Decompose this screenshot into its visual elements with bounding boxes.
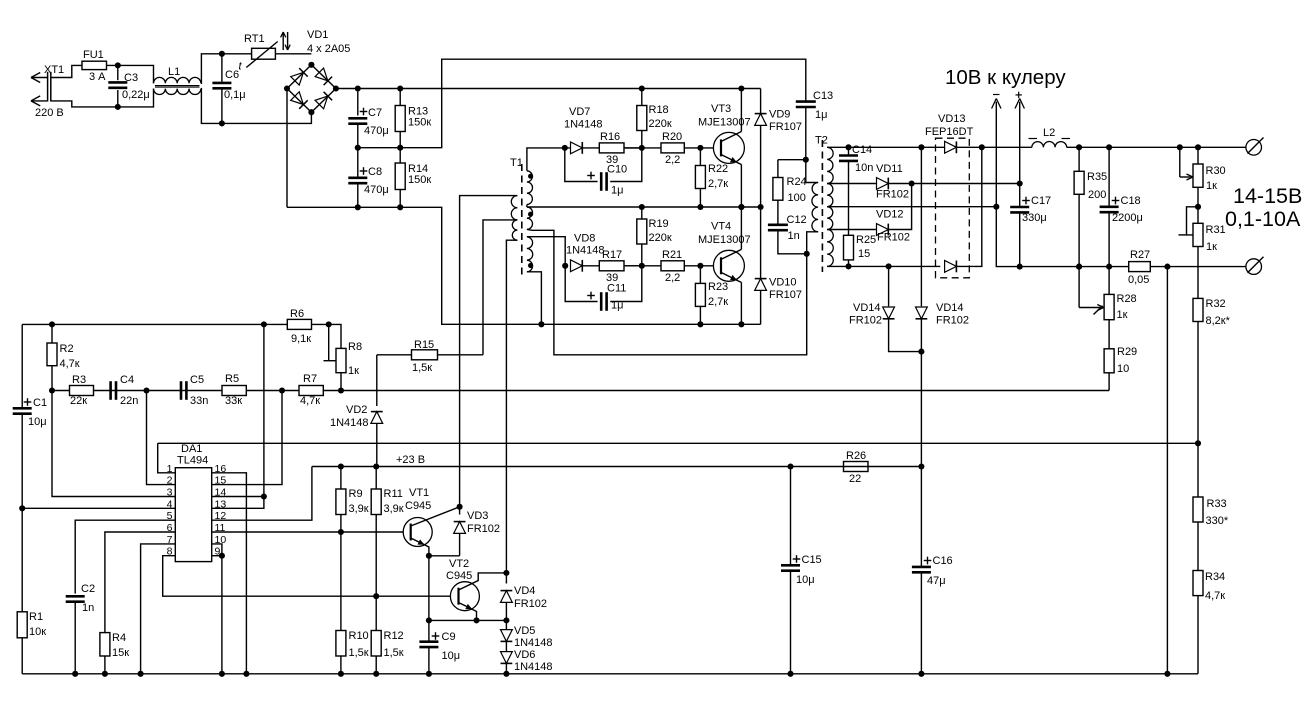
resistor R34 4.7k bbox=[1193, 571, 1225, 603]
svg-text:C7: C7 bbox=[368, 107, 382, 119]
diode VD5 1N4148 bbox=[501, 620, 553, 651]
svg-text:4,7к: 4,7к bbox=[1205, 590, 1225, 602]
capacitor C9 10u bbox=[419, 620, 460, 676]
resistor R29 10 bbox=[1104, 320, 1137, 391]
resistor R14 150k bbox=[395, 148, 431, 211]
wire C3 to L1 top bbox=[118, 65, 154, 83]
inductor L2 bbox=[1029, 127, 1071, 147]
resistor R17 39 bbox=[583, 249, 642, 284]
svg-text:10к: 10к bbox=[29, 626, 46, 638]
wire T1 bottom winding to common rail bbox=[527, 272, 545, 328]
svg-text:L1: L1 bbox=[168, 66, 180, 78]
svg-text:22: 22 bbox=[849, 473, 861, 485]
svg-text:9,1к: 9,1к bbox=[291, 333, 311, 345]
svg-text:R20: R20 bbox=[662, 131, 682, 143]
transformer T2 core bbox=[815, 135, 828, 273]
capacitor C3 0.22u bbox=[108, 62, 149, 110]
svg-text:VD11: VD11 bbox=[876, 163, 903, 175]
diode VD14 FR102 (left) bbox=[849, 263, 921, 351]
wire pin8 to VT2 base bbox=[163, 556, 459, 600]
wire pin5 to C2 bbox=[75, 520, 175, 593]
capacitor C6 0.1u bbox=[212, 51, 245, 127]
svg-text:1,5к: 1,5к bbox=[384, 647, 404, 659]
IC DA1 pin numbers bbox=[167, 463, 227, 558]
resistor R15 1.5k bbox=[377, 339, 483, 374]
label output rating bbox=[1225, 184, 1302, 231]
inductor L1 common-mode choke bbox=[154, 66, 201, 95]
resistor R9 3.9k bbox=[336, 467, 369, 533]
svg-text:C4: C4 bbox=[120, 374, 134, 386]
svg-text:VT3: VT3 bbox=[711, 103, 731, 115]
svg-text:150к: 150к bbox=[408, 174, 431, 186]
svg-text:2,7к: 2,7к bbox=[708, 296, 728, 308]
resistor R19 220k bbox=[637, 204, 672, 269]
svg-text:15к: 15к bbox=[112, 647, 129, 659]
wire pin16 to ground bbox=[212, 473, 250, 677]
capacitor C14 10n bbox=[839, 144, 873, 235]
wire emitter row bbox=[429, 619, 507, 621]
svg-text:VD8: VD8 bbox=[574, 233, 595, 245]
wire bridge minus drop bbox=[286, 89, 288, 208]
resistor R24 100 bbox=[773, 160, 807, 204]
svg-text:R3: R3 bbox=[72, 374, 86, 386]
capacitor C1 10u bbox=[13, 324, 47, 611]
resistor R7 4.7k bbox=[299, 373, 323, 407]
svg-text:R5: R5 bbox=[225, 373, 239, 385]
svg-text:T1: T1 bbox=[510, 157, 523, 169]
svg-text:C14: C14 bbox=[852, 144, 872, 156]
svg-text:8,2к*: 8,2к* bbox=[1206, 315, 1231, 327]
svg-text:C3: C3 bbox=[124, 72, 138, 84]
svg-text:14-15В: 14-15В bbox=[1233, 184, 1302, 208]
wire T1 primary bottom tap to VT2 node bbox=[506, 240, 517, 573]
label cooler output bbox=[945, 66, 1066, 89]
svg-text:R18: R18 bbox=[649, 104, 669, 116]
svg-text:22к: 22к bbox=[70, 395, 87, 407]
transformer T1 secondary top winding bbox=[527, 171, 533, 205]
svg-text:R30: R30 bbox=[1206, 165, 1226, 177]
svg-text:FR107: FR107 bbox=[769, 289, 802, 301]
capacitor C7 470u bbox=[348, 85, 388, 150]
diode VD7 1N4148 bbox=[564, 106, 603, 154]
wire pin1 to row A bbox=[158, 443, 176, 473]
diode VD12 FR102 bbox=[876, 184, 912, 244]
svg-text:R22: R22 bbox=[708, 163, 728, 175]
svg-text:3 А: 3 А bbox=[89, 71, 106, 83]
svg-text:VD2: VD2 bbox=[346, 404, 367, 416]
svg-text:33к: 33к bbox=[225, 395, 242, 407]
diode VD13 upper bbox=[945, 141, 957, 153]
diode VD10 FR107 bbox=[755, 207, 802, 324]
svg-text:22n: 22n bbox=[120, 395, 138, 407]
svg-text:1N4148: 1N4148 bbox=[330, 417, 369, 429]
svg-text:FR102: FR102 bbox=[467, 523, 500, 535]
svg-text:C12: C12 bbox=[787, 214, 807, 226]
svg-text:VD10: VD10 bbox=[769, 277, 797, 289]
capacitor C18 2200u bbox=[1100, 144, 1143, 269]
svg-text:47μ: 47μ bbox=[927, 575, 946, 587]
svg-text:R17: R17 bbox=[602, 249, 622, 261]
svg-text:C15: C15 bbox=[802, 554, 822, 566]
resistor R5 33k bbox=[222, 373, 246, 407]
svg-text:R21: R21 bbox=[662, 249, 682, 261]
svg-text:R33: R33 bbox=[1207, 498, 1227, 510]
svg-text:1,5к: 1,5к bbox=[412, 362, 432, 374]
svg-text:R25: R25 bbox=[856, 234, 876, 246]
svg-text:C11: C11 bbox=[607, 283, 626, 295]
resistor R2 4.7k bbox=[47, 324, 80, 390]
resistor R32 8.2k bbox=[1193, 298, 1231, 327]
svg-text:3,9к: 3,9к bbox=[384, 503, 404, 515]
svg-text:VD7: VD7 bbox=[569, 106, 590, 118]
svg-text:FU1: FU1 bbox=[83, 49, 104, 61]
svg-text:FR102: FR102 bbox=[514, 598, 547, 610]
resistor R27 0.05 shunt bbox=[1128, 249, 1170, 286]
wire cooler plus line bbox=[1015, 92, 1024, 187]
svg-text:L2: L2 bbox=[1043, 127, 1055, 139]
capacitor C16 47u bbox=[912, 467, 953, 677]
wire pin6 to R4 bbox=[105, 532, 175, 633]
svg-text:VD12: VD12 bbox=[876, 209, 904, 221]
svg-text:R29: R29 bbox=[1117, 346, 1137, 358]
svg-text:10n: 10n bbox=[855, 162, 873, 174]
wire mains top lead bbox=[51, 65, 82, 77]
svg-text:470μ: 470μ bbox=[364, 125, 389, 137]
svg-text:1N4148: 1N4148 bbox=[514, 661, 553, 673]
capacitor C17 330u bbox=[1010, 184, 1051, 270]
wire driver mid rail bbox=[527, 206, 761, 208]
svg-text:R35: R35 bbox=[1087, 171, 1107, 183]
wire pin10 to ground bbox=[212, 544, 225, 677]
capacitor C2 1n bbox=[66, 583, 95, 677]
potentiometer R30 1k bbox=[1177, 144, 1226, 192]
svg-text:200: 200 bbox=[1088, 189, 1106, 201]
svg-text:220 В: 220 В bbox=[35, 107, 64, 119]
svg-text:220к: 220к bbox=[649, 232, 672, 244]
resistor R33 330 bbox=[1193, 497, 1229, 527]
svg-text:10μ: 10μ bbox=[796, 574, 815, 586]
svg-text:C10: C10 bbox=[607, 164, 627, 176]
wire T2 tap VD11 row bbox=[827, 183, 876, 185]
diode VD13 lower bbox=[945, 261, 957, 273]
svg-text:FEP16DT: FEP16DT bbox=[925, 126, 974, 138]
resistor R21 2.2 bbox=[624, 249, 721, 284]
capacitor C15 10u bbox=[781, 463, 822, 676]
capacitor C11 1u bbox=[565, 266, 642, 312]
wire pin3 to R2R3 node bbox=[52, 391, 175, 497]
svg-text:R19: R19 bbox=[649, 218, 669, 230]
wire R30 chain column bbox=[1195, 144, 1201, 674]
svg-text:R11: R11 bbox=[384, 488, 403, 500]
svg-text:1N4148: 1N4148 bbox=[566, 245, 605, 257]
svg-text:330μ: 330μ bbox=[1022, 212, 1047, 224]
wire T1 top winding to VD7 bbox=[527, 148, 570, 171]
capacitor C5 33n bbox=[181, 374, 208, 407]
capacitor C12 1n bbox=[768, 200, 810, 257]
svg-text:2,7к: 2,7к bbox=[708, 178, 728, 190]
svg-text:RT1: RT1 bbox=[244, 33, 265, 45]
potentiometer R28 1k bbox=[1076, 264, 1137, 321]
svg-text:R28: R28 bbox=[1117, 293, 1137, 305]
svg-text:FR107: FR107 bbox=[769, 121, 802, 133]
svg-text:2200μ: 2200μ bbox=[1112, 212, 1143, 224]
transistor VT1 C945 bbox=[403, 487, 459, 556]
wire T2 bottom row bbox=[827, 265, 940, 267]
svg-text:R34: R34 bbox=[1205, 571, 1225, 583]
svg-text:VD4: VD4 bbox=[514, 585, 535, 597]
trimmer R8 1k bbox=[324, 324, 363, 377]
svg-text:0,1μ: 0,1μ bbox=[224, 89, 246, 101]
wire T2 tap VD12 row bbox=[827, 229, 876, 231]
svg-text:R1: R1 bbox=[29, 611, 43, 623]
svg-text:C945: C945 bbox=[405, 500, 431, 512]
wire feedback row R7 to R29 bbox=[49, 387, 1109, 393]
wire cooler minus line bbox=[992, 95, 1246, 267]
svg-text:330*: 330* bbox=[1206, 515, 1229, 527]
transistor VT3 MJE13007 bbox=[698, 85, 751, 210]
svg-text:100: 100 bbox=[788, 192, 806, 204]
potentiometer R31 1k bbox=[1179, 207, 1226, 253]
svg-text:T2: T2 bbox=[815, 135, 828, 147]
wire C8 bottom to driver common rail bbox=[287, 207, 761, 324]
svg-text:R6: R6 bbox=[290, 308, 304, 320]
resistor R35 200 bbox=[1074, 144, 1107, 269]
svg-text:10: 10 bbox=[1117, 363, 1129, 375]
transformer T1 feedback winding bbox=[527, 207, 533, 229]
wire T2 center tap row bbox=[827, 206, 996, 208]
wire pin11 to VT1 base bbox=[212, 529, 411, 535]
svg-text:VD9: VD9 bbox=[769, 109, 790, 121]
svg-text:1N4148: 1N4148 bbox=[514, 637, 553, 649]
resistor R10 1.5k bbox=[336, 532, 369, 677]
wire VT1 emitter to C9 row bbox=[426, 556, 432, 624]
svg-text:R7: R7 bbox=[303, 373, 317, 385]
svg-text:2,2: 2,2 bbox=[665, 154, 680, 166]
svg-text:MJE13007: MJE13007 bbox=[698, 234, 751, 246]
wire C7C8 midpoint to C13 bbox=[358, 59, 806, 148]
svg-text:VT1: VT1 bbox=[409, 487, 429, 499]
bridge diode top-left bbox=[291, 68, 308, 85]
svg-text:C6: C6 bbox=[225, 69, 239, 81]
svg-text:0,05: 0,05 bbox=[1128, 274, 1149, 286]
diode VD11 FR102 bbox=[876, 163, 915, 201]
svg-text:1к: 1к bbox=[348, 365, 359, 377]
svg-text:TL494: TL494 bbox=[177, 455, 208, 467]
svg-text:150к: 150к bbox=[408, 117, 431, 129]
svg-text:C5: C5 bbox=[190, 374, 204, 386]
svg-text:R24: R24 bbox=[787, 176, 807, 188]
svg-text:R12: R12 bbox=[384, 630, 404, 642]
svg-text:R26: R26 bbox=[846, 450, 866, 462]
svg-text:R23: R23 bbox=[708, 281, 728, 293]
svg-text:4 x 2A05: 4 x 2A05 bbox=[307, 43, 350, 55]
resistor R6 9.1k bbox=[287, 308, 311, 345]
resistor R11 3.9k bbox=[371, 467, 404, 597]
transformer T1 core bbox=[510, 157, 523, 278]
bridge diode bottom-left bbox=[291, 92, 308, 109]
svg-text:1N4148: 1N4148 bbox=[564, 119, 603, 131]
wire T1 primary center tap bbox=[483, 220, 517, 355]
svg-text:4,7к: 4,7к bbox=[300, 395, 320, 407]
wire L1 bottom to C6 bbox=[201, 89, 222, 124]
svg-text:FR102: FR102 bbox=[876, 189, 909, 201]
dual diode VD13 FEP16DT bbox=[925, 113, 974, 278]
wire pin13 pin14 to R6 bbox=[212, 324, 267, 508]
transformer T2 secondary winding bbox=[827, 147, 833, 266]
svg-text:10μ: 10μ bbox=[442, 650, 461, 662]
svg-text:VD14: VD14 bbox=[853, 302, 881, 314]
wire T1 top winding bottom to mid rail bbox=[526, 205, 528, 208]
diode VD4 FR102 bbox=[501, 573, 548, 624]
op-amp U DA1 TL494 body bbox=[175, 443, 211, 562]
svg-text:1к: 1к bbox=[1206, 241, 1217, 253]
terminal output minus bbox=[1246, 257, 1264, 275]
svg-text:R9: R9 bbox=[349, 488, 363, 500]
svg-text:4,7к: 4,7к bbox=[60, 358, 80, 370]
wire VT1 emitter node bbox=[426, 553, 460, 559]
wire pin9 stub bbox=[212, 553, 225, 559]
svg-text:1μ: 1μ bbox=[611, 185, 623, 197]
svg-text:1к: 1к bbox=[1206, 180, 1217, 192]
svg-text:220к: 220к bbox=[649, 118, 672, 130]
svg-text:VD5: VD5 bbox=[514, 625, 535, 637]
svg-text:C2: C2 bbox=[81, 583, 95, 595]
capacitor C10 1u bbox=[562, 145, 642, 197]
svg-text:DA1: DA1 bbox=[181, 443, 202, 455]
wire pin4 to C1R1 node bbox=[22, 507, 175, 509]
transformer T1 primary winding (left) bbox=[511, 196, 517, 241]
wire ground rail bbox=[22, 673, 1198, 675]
wire mains bottom lead bbox=[51, 101, 118, 107]
wire T1 primary top tap to VD3 node bbox=[460, 196, 518, 507]
svg-text:R15: R15 bbox=[414, 339, 434, 351]
wire C13 to T2 primary bbox=[806, 160, 818, 183]
svg-text:1,5к: 1,5к bbox=[349, 647, 369, 659]
wire C3 to L1 bottom bbox=[118, 89, 154, 107]
svg-text:1μ: 1μ bbox=[611, 300, 623, 312]
wire voltage sense row A bbox=[158, 442, 1198, 444]
resistor R16 39 bbox=[583, 131, 642, 166]
wire T2 output top row bbox=[827, 146, 1246, 148]
svg-text:R8: R8 bbox=[348, 341, 362, 353]
svg-text:VT2: VT2 bbox=[449, 558, 469, 570]
wire T1 feedback winding to T2 primary return bbox=[527, 229, 807, 354]
svg-text:FR102: FR102 bbox=[849, 315, 882, 327]
resistor R26 22 bbox=[844, 450, 869, 485]
svg-text:XT1: XT1 bbox=[44, 64, 64, 76]
resistor R3 22k bbox=[70, 374, 94, 407]
wire VD13 cathodes junction bbox=[957, 144, 985, 266]
svg-text:VD3: VD3 bbox=[467, 510, 488, 522]
svg-text:VD1: VD1 bbox=[307, 29, 328, 41]
resistor R18 220k bbox=[637, 85, 672, 151]
wire plus23V rail bbox=[312, 454, 922, 470]
resistor R20 2.2 bbox=[624, 131, 721, 166]
svg-text:15: 15 bbox=[858, 248, 870, 260]
svg-text:10μ: 10μ bbox=[28, 416, 47, 428]
capacitor C8 470u bbox=[348, 148, 388, 211]
wire VD11 VD12 cathodes to cooler plus bbox=[912, 183, 1020, 185]
wire AC bottom to bridge bbox=[222, 112, 312, 123]
diode bridge VD1 4x2A05 bbox=[284, 29, 350, 115]
svg-text:VT4: VT4 bbox=[711, 221, 731, 233]
diode VD6 1N4148 bbox=[501, 649, 553, 677]
svg-text:0,1-10А: 0,1-10А bbox=[1225, 207, 1301, 231]
svg-text:1к: 1к bbox=[1117, 309, 1128, 321]
wire pin15 to R5R7 node bbox=[212, 391, 282, 485]
wire main HV plus rail bbox=[336, 88, 761, 90]
svg-text:1μ: 1μ bbox=[815, 109, 827, 121]
transformer T1 secondary bottom winding bbox=[527, 237, 533, 272]
svg-text:0,22μ: 0,22μ bbox=[122, 89, 150, 101]
diode VD9 FR107 bbox=[755, 89, 802, 211]
transistor VT2 C945 bbox=[446, 558, 509, 623]
svg-text:R31: R31 bbox=[1206, 224, 1226, 236]
svg-text:FR102: FR102 bbox=[877, 232, 910, 244]
connector XT1 mains plug bbox=[31, 64, 64, 119]
svg-text:C8: C8 bbox=[368, 166, 382, 178]
fuse FU1 3A bbox=[82, 49, 118, 83]
svg-text:3,9к: 3,9к bbox=[349, 503, 369, 515]
svg-text:R4: R4 bbox=[112, 632, 126, 644]
svg-text:C1: C1 bbox=[33, 397, 47, 409]
svg-text:R16: R16 bbox=[600, 131, 620, 143]
svg-text:VD6: VD6 bbox=[514, 649, 535, 661]
svg-text:C16: C16 bbox=[933, 555, 953, 567]
svg-text:33n: 33n bbox=[190, 395, 208, 407]
svg-text:C18: C18 bbox=[1121, 195, 1141, 207]
svg-text:VD14: VD14 bbox=[936, 302, 964, 314]
transformer T2 primary winding bbox=[812, 183, 818, 232]
bridge diode top-right bbox=[315, 68, 332, 85]
resistor R22 2.7k bbox=[695, 148, 728, 210]
transistor VT4 MJE13007 bbox=[698, 204, 751, 327]
capacitor C13 1u bbox=[796, 90, 833, 163]
svg-text:MJE13007: MJE13007 bbox=[698, 117, 751, 129]
svg-text:C13: C13 bbox=[813, 90, 833, 102]
bridge diode bottom-right bbox=[315, 92, 332, 109]
wire T1 bottom winding to VD8 bbox=[527, 237, 565, 266]
resistor R13 150k bbox=[395, 85, 431, 150]
wire current sense line bbox=[1164, 267, 1170, 677]
svg-text:R32: R32 bbox=[1206, 298, 1226, 310]
thermistor RT1 bbox=[222, 32, 312, 73]
svg-text:+23 В: +23 В bbox=[396, 454, 425, 466]
terminal output plus bbox=[1246, 138, 1264, 156]
svg-text:R2: R2 bbox=[60, 343, 74, 355]
diode VD8 1N4148 bbox=[562, 233, 604, 272]
capacitor C4 22n bbox=[111, 374, 139, 407]
diode VD3 FR102 bbox=[454, 504, 500, 556]
svg-text:FR102: FR102 bbox=[936, 315, 969, 327]
wire top control row bbox=[22, 321, 341, 390]
diode VD14 FR102 (right) bbox=[916, 144, 970, 469]
diode VD2 1N4148 bbox=[330, 355, 383, 467]
wire pin7 to ground bbox=[138, 544, 176, 677]
wire L1 top to C6 bbox=[201, 54, 222, 84]
svg-text:2,2: 2,2 bbox=[665, 272, 680, 284]
svg-text:C17: C17 bbox=[1031, 195, 1051, 207]
svg-text:C9: C9 bbox=[442, 631, 456, 643]
resistor R25 15 bbox=[844, 234, 877, 269]
svg-text:1n: 1n bbox=[82, 602, 94, 614]
resistor R23 2.7k bbox=[695, 266, 728, 328]
wire pin12 to plus23V bbox=[212, 467, 312, 521]
svg-text:C945: C945 bbox=[446, 570, 472, 582]
svg-text:R10: R10 bbox=[349, 630, 369, 642]
resistor R1 10k bbox=[17, 611, 46, 674]
resistor R12 1.5k bbox=[371, 596, 404, 677]
